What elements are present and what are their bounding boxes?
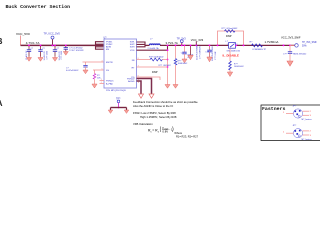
svg-text:IL_DISABLE: IL_DISABLE	[223, 54, 239, 58]
svg-text:- 1: - 1	[169, 128, 173, 132]
svg-text:2: 2	[158, 131, 160, 133]
svg-text:Feedback Connection should be: Feedback Connection should be as short a…	[133, 100, 199, 104]
ground	[207, 57, 212, 62]
ferrite bead FB1	[226, 41, 241, 52]
resistor R_fb_bottom	[174, 45, 188, 85]
ground	[108, 110, 113, 113]
svg-text:2: 2	[310, 111, 312, 113]
svg-text:R?: R?	[250, 42, 254, 44]
svg-text:R1= R23, R2= R27: R1= R23, R2= R27	[176, 135, 199, 139]
resistor R_ss	[93, 70, 101, 84]
svg-text:C?: C?	[31, 48, 34, 50]
svg-text:4.7V/1.7A: 4.7V/1.7A	[26, 41, 41, 45]
ground	[63, 52, 68, 56]
svg-text:3.7V/1.7A: 3.7V/1.7A	[166, 41, 178, 45]
svg-text:EN: EN	[106, 49, 109, 51]
svg-text:M?_fastner: M?_fastner	[302, 138, 312, 141]
svg-text:A: A	[0, 99, 3, 108]
ground	[139, 94, 144, 98]
svg-text:10uF/6.3V/0402: 10uF/6.3V/0402	[212, 45, 214, 61]
svg-text:50%: 50%	[302, 46, 307, 48]
svg-text:L?: L?	[150, 39, 153, 41]
svg-text:VFB Calculation: VFB Calculation	[133, 122, 153, 126]
resistor R_sense	[250, 42, 267, 52]
formula	[148, 126, 199, 139]
op-amp U1 buck regulator IC	[100, 37, 140, 92]
resistor R_dnp	[222, 28, 239, 38]
svg-text:Where: Where	[174, 131, 182, 135]
svg-text:22uF/6.3V/0805: 22uF/6.3V/0805	[197, 44, 199, 60]
ground	[165, 85, 170, 89]
svg-text:1: 1	[283, 112, 285, 114]
wire bus fanout to IC	[96, 42, 104, 50]
capacitor C3	[53, 46, 63, 61]
svg-text:TP_VCC_5V0: TP_VCC_5V0	[44, 31, 61, 35]
svg-text:100K/0402: 100K/0402	[234, 66, 245, 68]
svg-text:PGND1: PGND1	[106, 80, 114, 82]
svg-text:TBD/6.3V/0402: TBD/6.3V/0402	[293, 53, 308, 55]
svg-text:VCC_5V0: VCC_5V0	[16, 32, 30, 36]
inductor L1	[148, 39, 161, 50]
svg-text:6: 6	[138, 82, 139, 84]
svg-text:R?? 100K/0402: R?? 100K/0402	[149, 57, 164, 59]
svg-text:SW3: SW3	[130, 47, 136, 49]
svg-text:3: 3	[310, 115, 312, 117]
svg-text:2: 2	[101, 82, 102, 84]
wire EN line	[83, 61, 104, 63]
ground	[173, 85, 178, 89]
node J4	[65, 45, 67, 47]
capacitor C2	[38, 46, 48, 61]
fastener JP1	[283, 106, 312, 122]
resistor R_load	[229, 48, 245, 72]
wire VOS loop	[137, 45, 169, 51]
testpoint TP net-tie	[111, 98, 127, 110]
testpoint TP_3V3	[177, 37, 187, 46]
ground	[52, 57, 57, 62]
svg-text:JP?: JP?	[293, 125, 298, 127]
net flag VCC_3V3	[191, 38, 204, 47]
ground	[182, 59, 187, 63]
svg-text:100K/0402: 100K/0402	[178, 63, 189, 65]
svg-text:5: 5	[102, 69, 103, 71]
ground	[38, 57, 43, 62]
ground	[149, 94, 154, 98]
ground	[188, 55, 193, 60]
capacitor C7	[205, 45, 217, 62]
svg-text:TP_3V3_SNIF: TP_3V3_SNIF	[302, 42, 317, 44]
svg-text:VCC_3V3_SNIF: VCC_3V3_SNIF	[281, 36, 301, 40]
capacitor C6	[181, 45, 194, 60]
ground	[124, 110, 129, 113]
svg-text:AGND: AGND	[128, 80, 135, 83]
svg-text:C?: C?	[57, 48, 60, 50]
svg-text:JP?: JP?	[293, 106, 298, 108]
svg-text:Also the AGND is Close to the: Also the AGND is Close to the IC	[133, 104, 173, 108]
node J6	[283, 45, 285, 47]
svg-text:0.047uF/0402: 0.047uF/0402	[66, 70, 79, 72]
testpoint TP_VCC_5V0	[44, 31, 61, 46]
node J2	[40, 45, 42, 47]
fasteners box	[261, 105, 320, 141]
svg-text:B: B	[0, 37, 3, 46]
svg-text:VCC_3V3: VCC_3V3	[191, 38, 204, 42]
wire PG line	[137, 77, 161, 80]
svg-text:TC/LP 10V/X5R: TC/LP 10V/X5R	[69, 50, 84, 52]
svg-text:C?? X5R: C?? X5R	[215, 51, 217, 60]
svg-text:Fastners: Fastners	[262, 106, 286, 112]
svg-text:High 1.25MHz, Select By R28: High 1.25MHz, Select By R28	[140, 115, 177, 119]
node J1	[28, 45, 30, 47]
ground	[83, 70, 88, 74]
ground	[287, 61, 293, 66]
svg-text:DNP: DNP	[152, 70, 158, 74]
wire FB sense vertical	[167, 49, 169, 84]
capacitor C4	[64, 46, 84, 52]
svg-text:GNL1608/1.7A: GNL1608/1.7A	[227, 49, 241, 52]
svg-text:C??: C??	[283, 53, 288, 55]
node J7	[289, 45, 291, 47]
svg-text:0R/0402: 0R/0402	[163, 65, 171, 67]
wire RT line	[137, 65, 172, 74]
fastener JP2	[283, 125, 312, 141]
svg-text:C?: C?	[42, 48, 45, 50]
wire output bus	[161, 44, 295, 46]
svg-text:3: 3	[310, 135, 312, 137]
svg-text:4: 4	[102, 61, 103, 63]
svg-text:C?? X5R/20%: C?? X5R/20%	[199, 46, 201, 59]
svg-text:1: 1	[101, 79, 102, 81]
svg-text:M?_fastner: M?_fastner	[302, 118, 312, 121]
wire AGND	[137, 81, 142, 94]
svg-text:2: 2	[310, 131, 312, 133]
testpoint TP end	[290, 42, 317, 48]
svg-text:EN/TR: EN/TR	[106, 62, 113, 64]
svg-text:2.2uH/4.7A: 2.2uH/4.7A	[148, 47, 159, 50]
svg-text:A_PAD: A_PAD	[106, 82, 113, 85]
svg-text:1.7V/80mA: 1.7V/80mA	[265, 40, 279, 44]
svg-text:C?? 0402: C?? 0402	[47, 50, 49, 60]
wire input stub	[20, 36, 22, 46]
capacitor C_byp maroon drop	[190, 45, 192, 56]
ground	[92, 84, 97, 88]
svg-text:COMPASS TP: COMPASS TP	[252, 48, 267, 51]
svg-text:R??_0Ohm/0402: R??_0Ohm/0402	[222, 28, 239, 30]
svg-text:DNP: DNP	[226, 34, 232, 38]
wire main input bus	[21, 44, 104, 46]
wire FB line	[137, 57, 168, 61]
ground	[26, 57, 31, 62]
svg-text:FSW= Low 2.5MHz, Select By R2: FSW= Low 2.5MHz, Select By R28	[133, 111, 176, 115]
capacitor C1	[26, 46, 34, 60]
capacitor C8	[283, 46, 307, 61]
svg-text:1: 1	[283, 132, 285, 134]
svg-text:Buck Converter Section: Buck Converter Section	[6, 4, 71, 10]
svg-text:0.8V: 0.8V	[162, 130, 168, 134]
wire DNP bypass loop	[217, 31, 245, 46]
node J3	[54, 45, 56, 47]
wire SS line	[93, 69, 104, 71]
svg-text:VOS: VOS	[130, 50, 135, 52]
node J5	[235, 45, 237, 47]
svg-text:P/N: MPQ2167GQB: P/N: MPQ2167GQB	[106, 90, 126, 92]
wire SW merge	[137, 42, 149, 47]
capacitor C5	[66, 62, 88, 72]
wire PGND1	[137, 79, 152, 95]
ground	[227, 72, 232, 77]
